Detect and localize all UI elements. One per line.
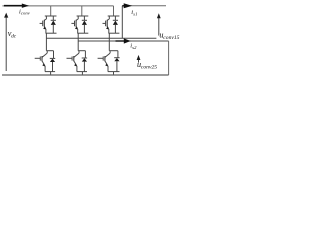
node: upper cell 3 emitter bar <box>108 32 119 34</box>
node: upper cell 2 emitter bar <box>77 32 88 34</box>
current arrow i_conv on top rail <box>4 4 29 8</box>
label i_conv <box>19 9 31 16</box>
voltage arrow u_conv15 <box>157 13 161 35</box>
node: upper cell 1 collector bar <box>45 15 57 17</box>
wire: output bus 1 (upper midpoint bus) <box>46 37 156 39</box>
transistor T4 (lower IGBT, leg 1) <box>35 51 48 72</box>
node: upper cell 1 emitter bar <box>46 32 57 34</box>
current arrow i_s1 on phase output 1 <box>122 3 132 8</box>
svg-text:conv25: conv25 <box>141 65 157 71</box>
wire: stub from DC+ rail to upper cell 2 <box>81 6 83 16</box>
svg-text:s2: s2 <box>132 45 137 50</box>
wire: stub from lower cell 2 to DC- rail <box>81 72 83 75</box>
label i_s2 <box>130 43 137 51</box>
node: lower cell 3 collector bar <box>109 50 118 52</box>
wire: output bus 2 (lower midpoint bus) <box>78 40 168 42</box>
node: lower cell 3 emitter bar <box>108 71 120 73</box>
wire: stub from lower cell 1 to DC- rail <box>50 72 52 75</box>
diode D1 (antiparallel diode, upper leg 1) <box>51 16 56 33</box>
svg-text:conv: conv <box>21 10 31 15</box>
diode D2 (antiparallel diode, upper leg 2) <box>82 16 87 33</box>
label v_dc <box>8 29 17 39</box>
wire: stub from lower cell 3 to DC- rail <box>113 72 115 75</box>
node: lower cell 1 emitter bar <box>45 71 55 73</box>
transistor T5 (lower IGBT, leg 2) <box>67 51 80 72</box>
node: lower cell 2 emitter bar <box>77 71 87 73</box>
node: lower cell 2 collector bar <box>78 50 85 52</box>
wire: right vertical return conductor <box>168 41 170 75</box>
transistor T6 (lower IGBT, leg 3) <box>98 51 111 72</box>
label u_conv15 <box>159 31 179 42</box>
svg-text:s1: s1 <box>133 12 137 17</box>
node: upper cell 3 collector bar <box>108 15 120 17</box>
wire: phase output 1 (top right) <box>122 5 166 7</box>
diode D3 (antiparallel diode, upper leg 3) <box>113 16 118 33</box>
node: lower cell 1 collector bar <box>46 50 53 52</box>
wire: stub from DC+ rail to upper cell 1 <box>50 6 52 16</box>
diode D5 (antiparallel diode, lower leg 2) <box>82 51 87 72</box>
transistor T1 (upper IGBT, leg 1) <box>40 16 47 33</box>
label i_s1 <box>131 9 137 16</box>
node: upper cell 2 collector bar <box>77 15 89 17</box>
diode D6 (antiparallel diode, lower leg 3) <box>114 51 119 72</box>
svg-text:dc: dc <box>11 34 17 40</box>
wire: positive DC rail (top) <box>2 5 113 7</box>
wire: leg 1 midpoint vertical <box>45 33 47 51</box>
voltage arrow u_conv25 <box>137 55 141 63</box>
current arrow i_s2 on output bus 2 <box>116 38 131 43</box>
wire: leg 2 midpoint vertical <box>77 33 79 51</box>
wire: riser from bus 1 to phase output 1 <box>121 6 123 39</box>
transistor T3 (upper IGBT, leg 3) <box>103 16 110 33</box>
label u_conv25 <box>137 60 157 71</box>
transistor T2 (upper IGBT, leg 2) <box>71 16 78 33</box>
wire: negative DC rail (bottom) <box>2 74 169 76</box>
wire: stub from DC+ rail to upper cell 3 <box>113 6 115 16</box>
voltage arrow v_dc (DC-link voltage) <box>4 13 8 71</box>
wire: leg 3 midpoint vertical <box>108 33 110 51</box>
svg-text:conv15: conv15 <box>163 35 179 41</box>
diode D4 (antiparallel diode, lower leg 1) <box>50 51 55 72</box>
